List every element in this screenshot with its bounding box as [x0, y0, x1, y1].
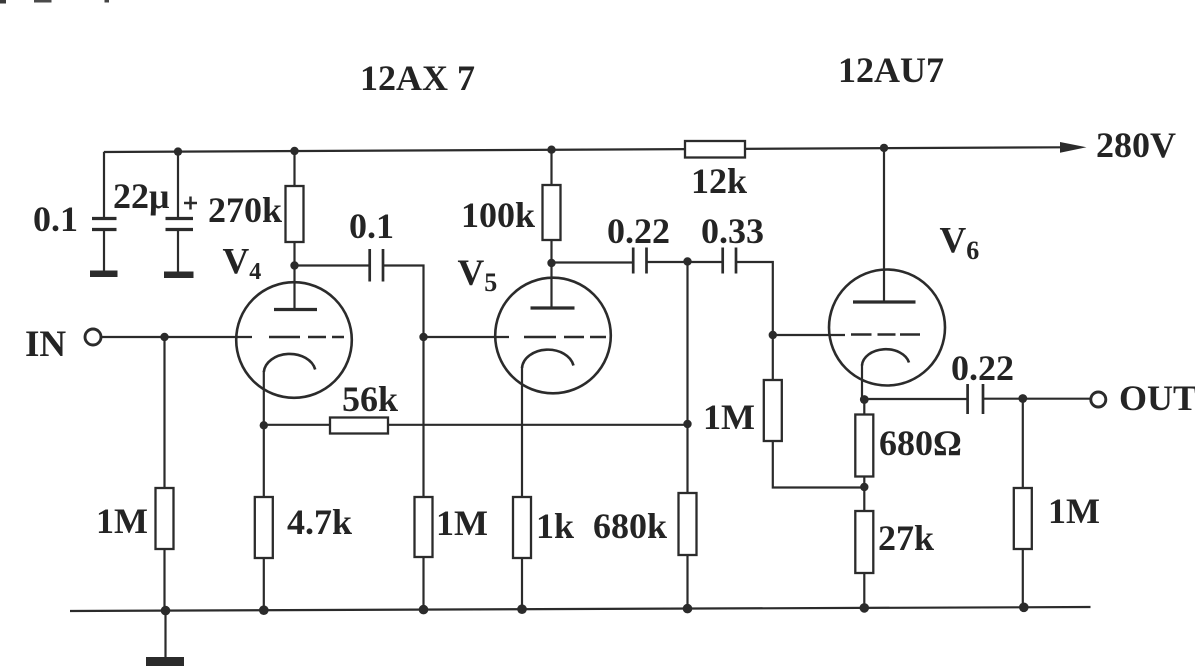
wire: ground bottom rail [70, 607, 1091, 611]
ground symbol [146, 611, 184, 666]
node: V6 grid [769, 331, 777, 339]
svg-text:1k: 1k [536, 506, 574, 546]
svg-text:12k: 12k [691, 161, 747, 201]
resistor 1k [513, 497, 531, 558]
wire: output cap to OUT terminal [984, 398, 1091, 400]
tube V6 (12AU7) [829, 148, 945, 400]
capacitor 22u electrolytic [164, 197, 197, 275]
svg-text:270k: 270k [208, 190, 282, 230]
wire: V6 cathode to output cap [864, 398, 966, 400]
resistor 100k [543, 185, 561, 240]
capacitor 0.1 (left bypass) [90, 219, 118, 274]
resistor 56k [330, 418, 388, 434]
svg-text:0.1: 0.1 [349, 206, 394, 246]
wire: OUT node down to 1M load [1022, 399, 1024, 609]
wire: V6 cathode down through 680ohm and 27k to ground [863, 400, 865, 609]
svg-text:OUT: OUT [1119, 378, 1195, 418]
wire: left drop from rail to C 0.1 [103, 152, 105, 217]
wire: C 0.33 to corner down to V6 grid node [737, 262, 773, 335]
resistor 680k [679, 493, 697, 555]
node: ground rail junction 680k [683, 604, 693, 614]
svg-text:V6: V6 [940, 221, 980, 266]
terminal OUT [1091, 392, 1106, 407]
svg-text:22μ: 22μ [113, 176, 169, 216]
resistor 1M (V5 grid) [415, 497, 433, 557]
resistor 1M (V6 grid) [764, 380, 782, 441]
wire: junction down to 1M input resistor [163, 337, 165, 611]
tube V5 (1/2 12AX7) [495, 263, 611, 497]
node: V4 plate / coupling [290, 261, 298, 269]
capacitor 0.22 coupling [633, 248, 646, 274]
node: V5 grid [419, 333, 427, 341]
wire: feedback V4 cathode to 680k node [264, 424, 688, 426]
wire: rail to 270k to V4 plate node [293, 151, 295, 266]
arrowhead 280V [1060, 142, 1087, 153]
svg-text:100k: 100k [461, 195, 535, 235]
svg-text:680k: 680k [593, 506, 667, 546]
svg-text:1M: 1M [436, 503, 488, 543]
wire: plate node to C 0.1 coupling [295, 264, 369, 266]
wire: C 0.22 to C 0.33 [648, 261, 722, 263]
resistor 270k [286, 186, 304, 242]
svg-text:56k: 56k [342, 379, 398, 419]
node: ground rail junction 4.7k [259, 605, 269, 615]
svg-text:0.33: 0.33 [701, 211, 764, 251]
tube V4 (1/2 12AX7) [236, 266, 352, 427]
node: V6 cathode [860, 395, 869, 404]
svg-text:27k: 27k [878, 518, 934, 558]
wire: drop from rail to C 22u [177, 152, 179, 218]
node: ground rail junction input 1M [161, 606, 171, 616]
svg-text:280V: 280V [1096, 125, 1176, 165]
wire: grid node down to 1M grid resistor [422, 337, 424, 497]
node: V4 cathode [260, 421, 268, 429]
node: 56k / 680k junction [683, 420, 691, 428]
capacitor 0.1 coupling [370, 249, 383, 282]
wire: rail to 100k to V5 plate [550, 150, 552, 263]
wire: grid node down through 1M to cathode divider [773, 335, 865, 488]
svg-text:4.7k: 4.7k [287, 502, 352, 542]
wire: 1k to ground rail [521, 557, 523, 611]
resistor 27k [855, 511, 873, 573]
wire: V5 grid node into tube [424, 336, 510, 338]
svg-text:680Ω: 680Ω [879, 423, 962, 463]
node: rail junction V6 plate [880, 144, 888, 152]
svg-text:0.22: 0.22 [607, 211, 670, 251]
node: IN / 1M junction [160, 333, 168, 341]
scan artifact marks at top edge [0, 0, 109, 4]
capacitor 0.33 coupling [723, 248, 736, 274]
capacitor 0.22 output [968, 384, 983, 414]
svg-text:0.22: 0.22 [951, 348, 1014, 388]
node: ground rail junction 1k [517, 604, 527, 614]
resistor 4.7k [255, 497, 273, 558]
node: ground rail junction 1M load [1019, 603, 1029, 613]
node: V5 plate [547, 259, 555, 267]
node: rail junction 270k [290, 147, 298, 155]
svg-text:12AX 7: 12AX 7 [360, 58, 475, 98]
node: 680ohm / 27k junction [860, 483, 868, 491]
wire: B+ top rail [104, 147, 1062, 152]
node: 680k top [683, 257, 691, 265]
resistor 12k (in rail) [685, 141, 745, 158]
wire: 680k node down to ground [686, 262, 688, 611]
svg-text:V5: V5 [458, 253, 498, 297]
resistor 1M (output load) [1014, 488, 1032, 549]
svg-text:1M: 1M [703, 397, 755, 437]
resistor 680ohm [855, 415, 873, 477]
svg-text:1M: 1M [96, 501, 148, 541]
wire: IN to V4 grid [102, 336, 253, 338]
wire: V4 cathode down to 4.7k and ground [263, 425, 265, 611]
wire: V5 plate to C 0.22 [552, 261, 633, 263]
svg-text:1M: 1M [1048, 491, 1100, 531]
terminal IN [85, 329, 101, 345]
svg-text:0.1: 0.1 [33, 199, 78, 239]
node: ground rail junction 1M V5 grid [419, 605, 429, 615]
wire: C 0.1 to corner down to V5 grid node [384, 266, 424, 338]
node: OUT / 1M junction [1018, 394, 1027, 403]
wire: V6 grid node into tube [773, 334, 845, 336]
svg-text:12AU7: 12AU7 [838, 50, 944, 90]
node: rail junction 22u [174, 147, 182, 155]
node: ground rail junction 27k [860, 603, 870, 613]
svg-text:IN: IN [25, 324, 66, 365]
svg-text:V4: V4 [223, 242, 262, 286]
wire: 1M to ground rail [422, 557, 424, 611]
resistor 1M (input) [156, 488, 174, 549]
node: rail junction 100k [547, 146, 555, 154]
